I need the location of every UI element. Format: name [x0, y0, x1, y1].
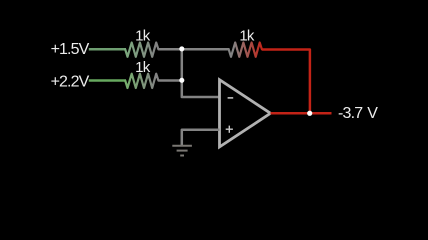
output node junction dot	[307, 111, 312, 116]
svg-text:+1.5V: +1.5V	[51, 41, 90, 58]
wire V1 to R1	[89, 48, 126, 51]
op-amp U1	[220, 80, 271, 147]
wire node A to R3	[182, 48, 230, 51]
svg-text:1k: 1k	[239, 27, 255, 44]
ground	[172, 146, 192, 156]
wire V2 to R2	[89, 79, 126, 82]
node A junction dot	[179, 46, 184, 51]
svg-text:-3.7 V: -3.7 V	[338, 105, 378, 122]
wire R1 to node A	[158, 48, 182, 51]
wire R3 to output (feedback)	[262, 50, 310, 114]
resistor R3	[229, 43, 262, 57]
wire R2 to node B	[158, 79, 182, 82]
resistor R1	[125, 43, 158, 57]
resistor R2	[125, 74, 158, 88]
wire op-amp output	[271, 112, 332, 115]
wire node B to op-amp inverting input	[182, 81, 220, 98]
svg-text:1k: 1k	[135, 59, 151, 76]
node B junction dot	[179, 78, 184, 83]
wire op-amp non-inverting input to ground	[182, 130, 220, 145]
svg-text:+2.2V: +2.2V	[51, 73, 90, 90]
svg-text:1k: 1k	[135, 27, 151, 44]
op-amp inverting input marker -	[228, 97, 234, 99]
wire node A to node B vertical	[181, 49, 184, 80]
op-amp non-inverting input marker +	[226, 126, 233, 133]
